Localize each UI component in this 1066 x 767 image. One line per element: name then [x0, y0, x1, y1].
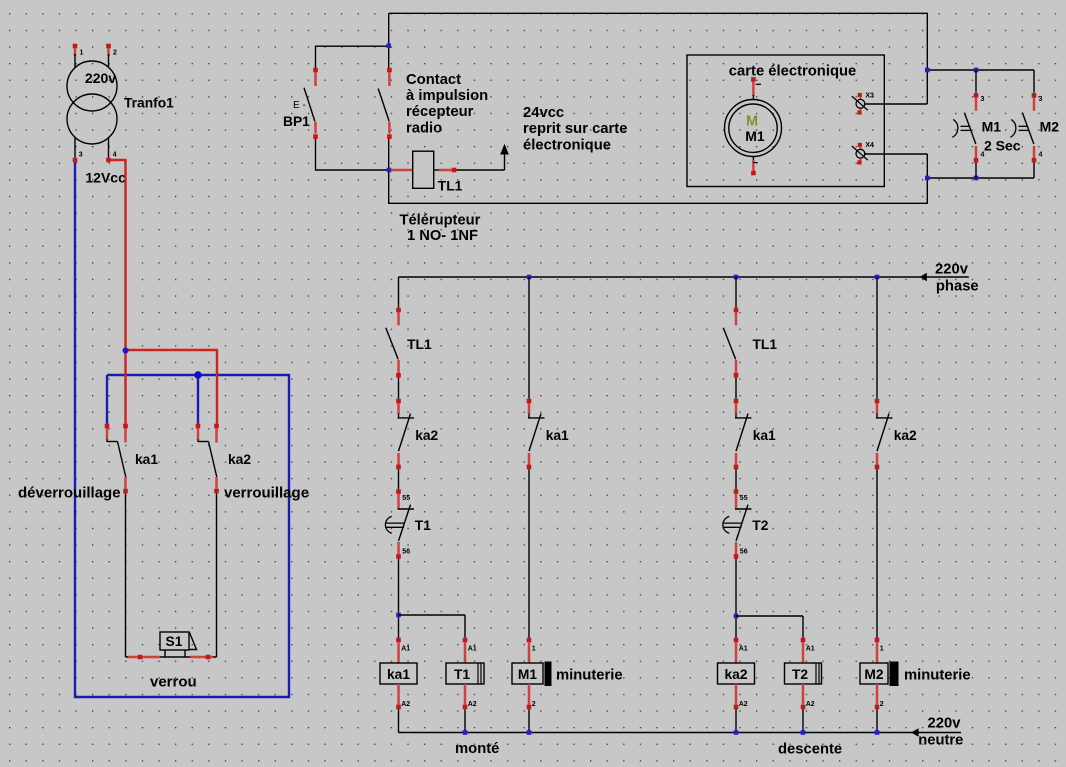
- svg-text:carte électronique: carte électronique: [729, 64, 856, 80]
- svg-text:minuterie: minuterie: [556, 668, 623, 684]
- svg-text:2: 2: [880, 701, 884, 708]
- svg-text:M1: M1: [745, 128, 765, 144]
- svg-text:A2: A2: [468, 701, 477, 708]
- svg-text:ka2: ka2: [228, 452, 251, 467]
- svg-text:TL1: TL1: [753, 337, 778, 352]
- svg-text:T2: T2: [752, 518, 768, 533]
- svg-text:ka2: ka2: [415, 428, 438, 443]
- svg-text:1: 1: [880, 645, 884, 652]
- svg-text:Tranfo1: Tranfo1: [124, 96, 174, 111]
- svg-text:verrouillage: verrouillage: [224, 485, 309, 502]
- svg-text:TL1: TL1: [407, 337, 432, 352]
- svg-text:phase: phase: [936, 278, 979, 294]
- svg-text:A1: A1: [739, 645, 748, 652]
- svg-text:M2: M2: [864, 667, 883, 682]
- svg-text:TL1: TL1: [438, 179, 463, 194]
- svg-text:BP1: BP1: [283, 114, 310, 129]
- svg-text:24vcc: 24vcc: [523, 105, 564, 121]
- svg-text:3: 3: [981, 96, 985, 103]
- svg-text:descente: descente: [778, 742, 842, 758]
- svg-text:Télérupteur: Télérupteur: [400, 212, 481, 228]
- svg-text:4: 4: [113, 152, 117, 159]
- svg-text:Contact: Contact: [406, 72, 461, 88]
- svg-text:ka1: ka1: [546, 428, 569, 443]
- svg-text:minuterie: minuterie: [904, 668, 971, 684]
- svg-text:reprit sur carte: reprit sur carte: [523, 121, 627, 137]
- svg-text:55: 55: [402, 495, 410, 502]
- svg-text:X4: X4: [865, 142, 874, 149]
- svg-text:T1: T1: [454, 667, 470, 682]
- svg-text:A1: A1: [468, 645, 477, 652]
- svg-text:ka2: ka2: [724, 667, 747, 682]
- svg-text:55: 55: [740, 495, 748, 502]
- svg-text:E -: E -: [293, 100, 306, 111]
- svg-text:220v: 220v: [935, 262, 969, 278]
- svg-text:A2: A2: [401, 701, 410, 708]
- svg-text:2 Sec: 2 Sec: [984, 138, 1021, 154]
- svg-text:A2: A2: [739, 701, 748, 708]
- svg-text:ka1: ka1: [387, 667, 410, 682]
- svg-text:220v: 220v: [928, 716, 962, 732]
- svg-text:X3: X3: [865, 92, 874, 99]
- svg-text:12Vcc: 12Vcc: [85, 170, 126, 186]
- svg-text:verrou: verrou: [150, 674, 197, 691]
- svg-text:2: 2: [532, 701, 536, 708]
- svg-text:3: 3: [1039, 96, 1043, 103]
- svg-text:2: 2: [113, 50, 117, 57]
- svg-text:déverrouillage: déverrouillage: [18, 485, 121, 502]
- svg-text:M2: M2: [1040, 119, 1060, 135]
- svg-text:électronique: électronique: [523, 137, 611, 153]
- svg-text:A1: A1: [806, 645, 815, 652]
- svg-text:M1: M1: [982, 119, 1002, 135]
- svg-text:neutre: neutre: [918, 732, 963, 748]
- svg-text:4: 4: [1039, 151, 1043, 158]
- svg-text:radio: radio: [406, 120, 442, 136]
- svg-text:1: 1: [532, 645, 536, 652]
- svg-text:56: 56: [402, 549, 410, 556]
- svg-text:T2: T2: [792, 667, 808, 682]
- svg-text:récepteur: récepteur: [406, 104, 474, 120]
- svg-text:220v: 220v: [85, 70, 116, 86]
- svg-text:M1: M1: [518, 667, 537, 682]
- svg-text:S1: S1: [166, 634, 183, 649]
- svg-text:A2: A2: [806, 701, 815, 708]
- svg-text:56: 56: [740, 549, 748, 556]
- svg-text:ka2: ka2: [894, 428, 917, 443]
- svg-text:à impulsion: à impulsion: [406, 88, 488, 104]
- svg-text:monté: monté: [455, 741, 499, 757]
- svg-text:1: 1: [80, 50, 84, 57]
- svg-text:A1: A1: [401, 645, 410, 652]
- svg-text:ka1: ka1: [753, 428, 776, 443]
- svg-text:1 NO- 1NF: 1 NO- 1NF: [407, 228, 478, 244]
- svg-text:ka1: ka1: [135, 452, 158, 467]
- svg-text:3: 3: [79, 152, 83, 159]
- svg-text:T1: T1: [415, 518, 431, 533]
